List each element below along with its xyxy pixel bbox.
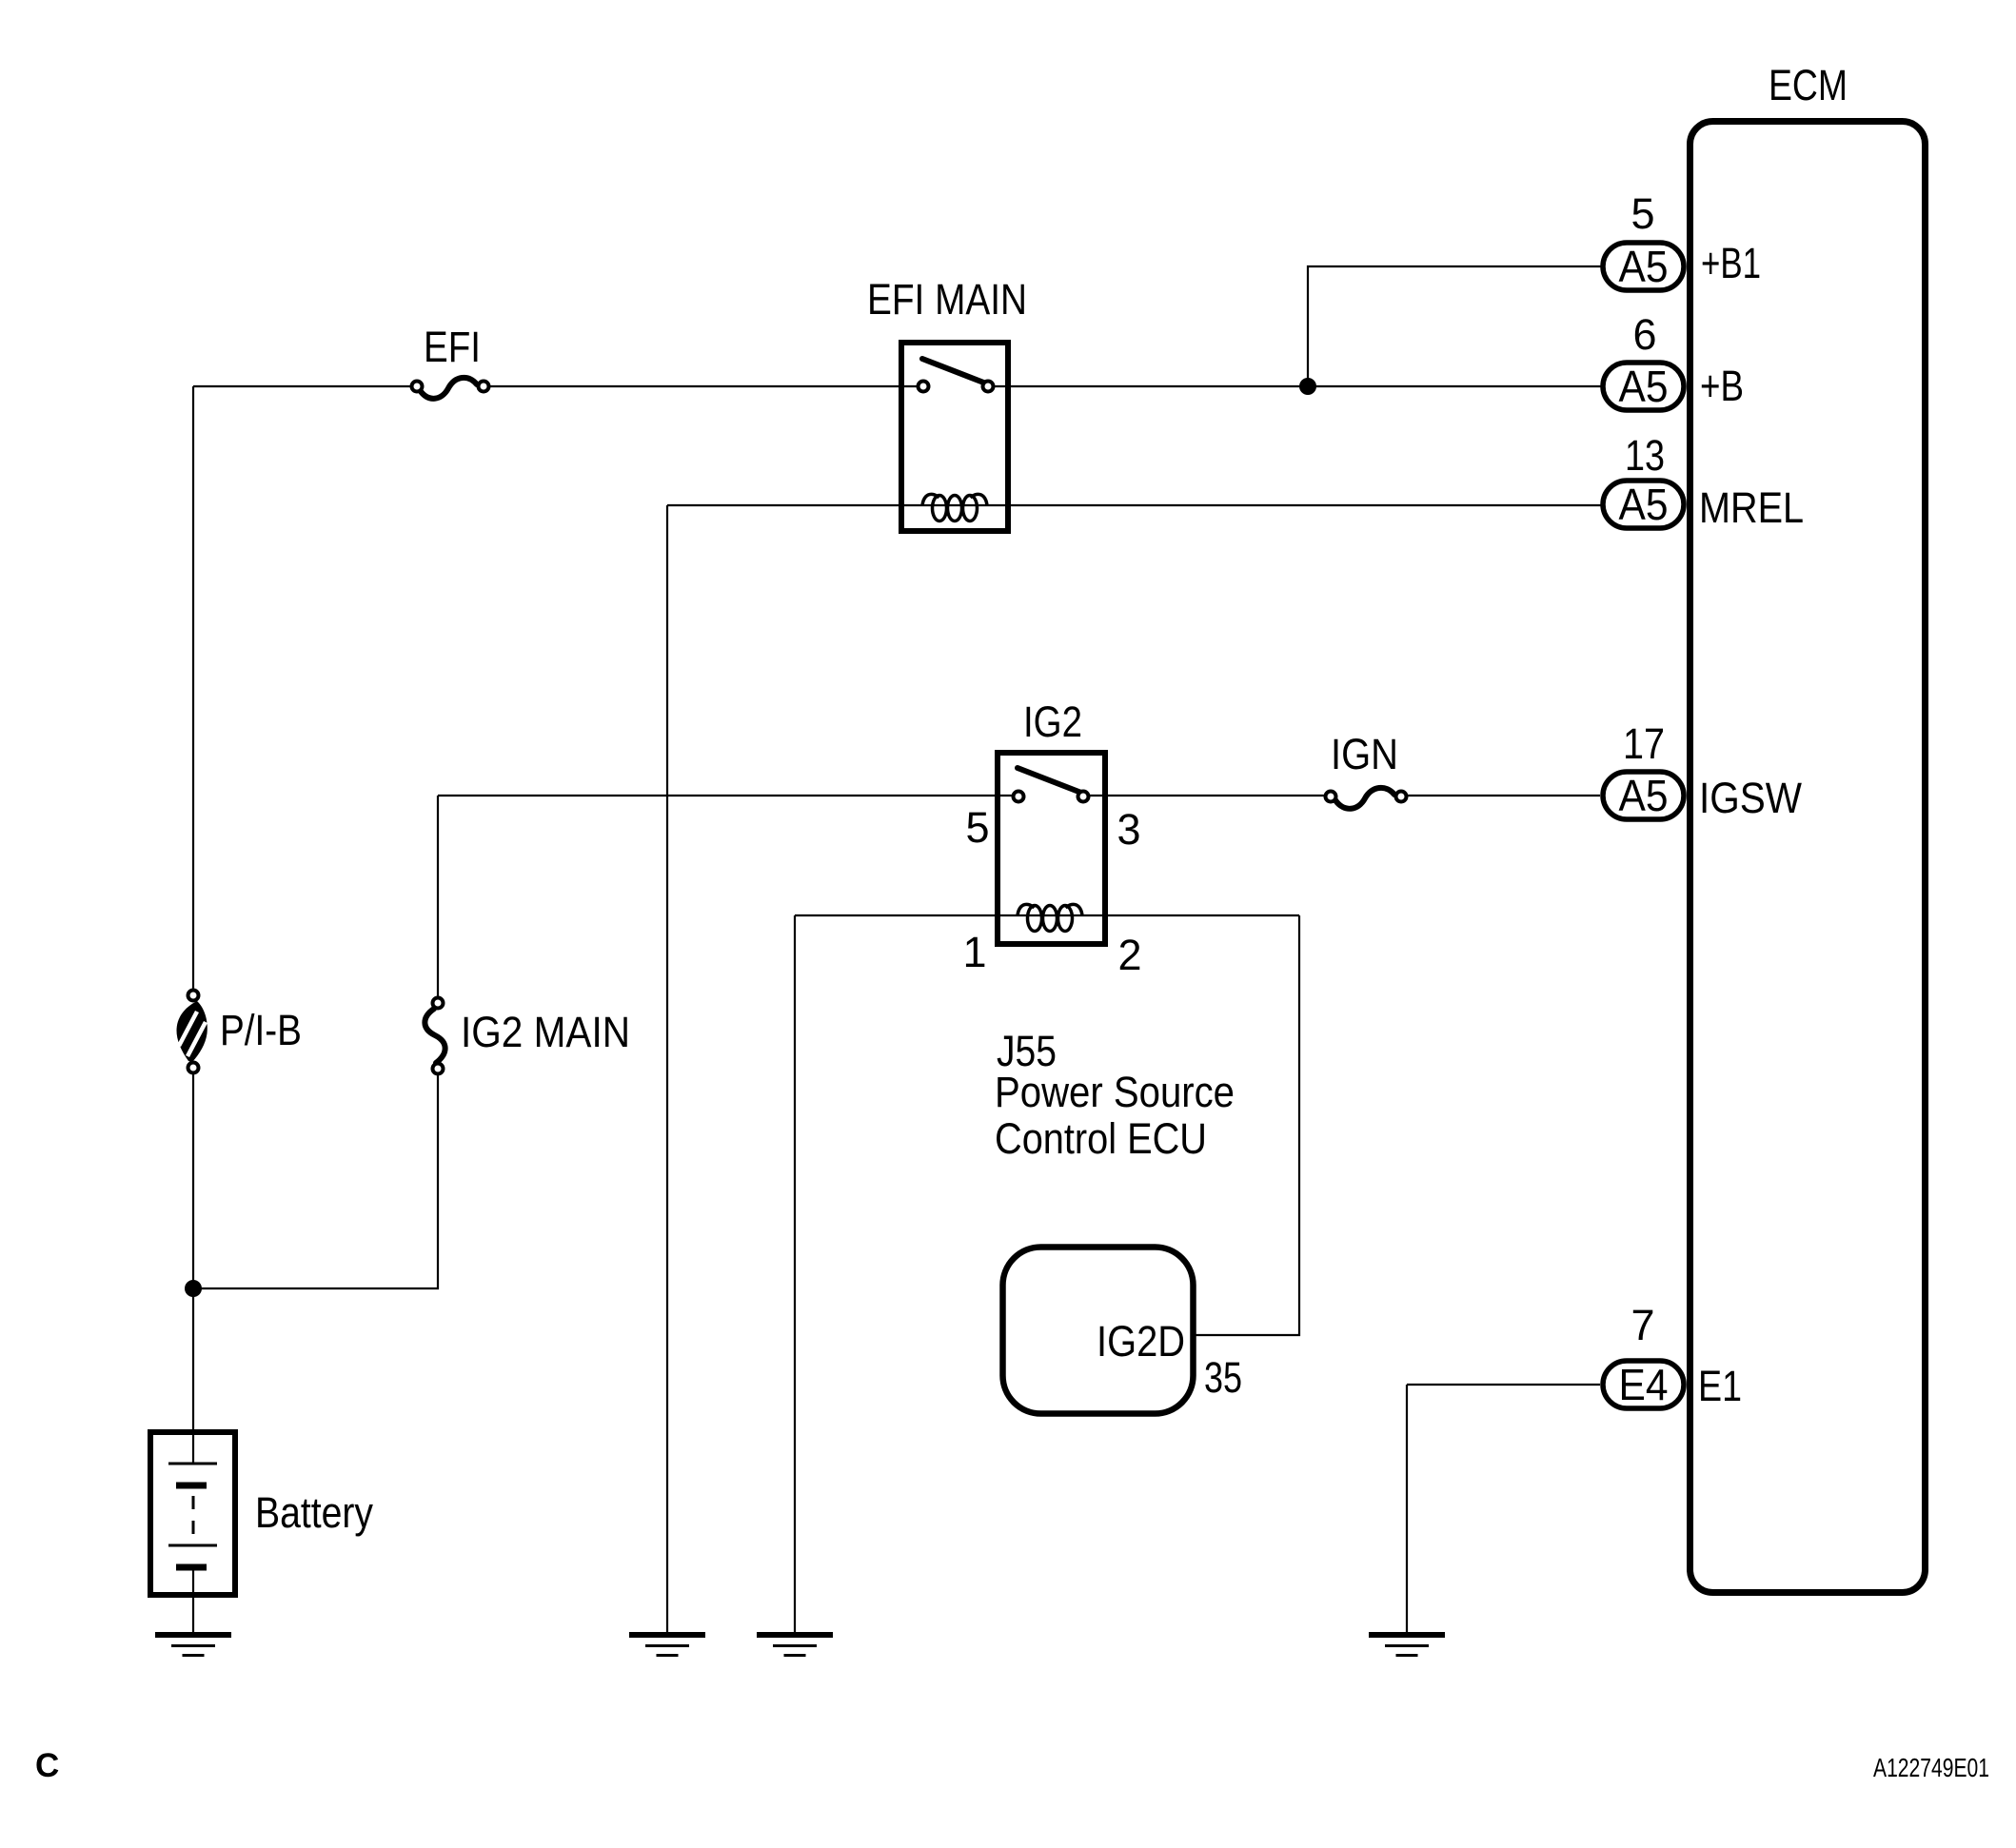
svg-text:A5: A5 [1619, 362, 1669, 411]
svg-text:IGN: IGN [1331, 730, 1398, 778]
svg-text:EFI: EFI [424, 323, 481, 371]
svg-text:2: 2 [1117, 931, 1141, 979]
svg-text:5: 5 [965, 803, 989, 852]
svg-text:35: 35 [1204, 1353, 1242, 1402]
svg-text:A5: A5 [1619, 480, 1669, 529]
svg-text:IG2D: IG2D [1097, 1317, 1185, 1366]
svg-text:E4: E4 [1619, 1360, 1669, 1409]
svg-text:IGSW: IGSW [1699, 774, 1802, 822]
svg-text:IG2: IG2 [1023, 698, 1082, 746]
svg-text:EFI MAIN: EFI MAIN [867, 275, 1027, 324]
svg-text:Battery: Battery [255, 1488, 373, 1537]
svg-text:Power Source: Power Source [995, 1068, 1235, 1116]
svg-text:E1: E1 [1698, 1362, 1742, 1410]
svg-text:+B1: +B1 [1701, 239, 1761, 287]
svg-text:17: 17 [1623, 719, 1665, 768]
svg-text:MREL: MREL [1699, 483, 1804, 532]
svg-text:A5: A5 [1619, 242, 1669, 291]
svg-text:13: 13 [1625, 431, 1665, 480]
svg-text:3: 3 [1117, 805, 1140, 854]
svg-text:+B: +B [1700, 362, 1744, 410]
svg-text:ECM: ECM [1769, 61, 1848, 109]
svg-text:C: C [35, 1747, 59, 1784]
svg-text:IG2 MAIN: IG2 MAIN [461, 1008, 630, 1056]
svg-text:1: 1 [962, 928, 986, 976]
svg-text:Control ECU: Control ECU [995, 1114, 1207, 1163]
svg-text:6: 6 [1632, 310, 1656, 359]
svg-text:A122749E01: A122749E01 [1873, 1753, 1989, 1782]
svg-text:5: 5 [1631, 189, 1654, 238]
svg-text:P/I-B: P/I-B [220, 1006, 302, 1054]
svg-text:A5: A5 [1619, 771, 1669, 820]
svg-text:7: 7 [1631, 1301, 1654, 1349]
